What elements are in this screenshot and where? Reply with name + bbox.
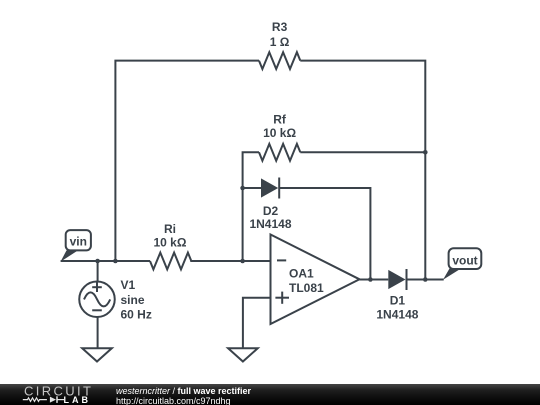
wire D2 anode xyxy=(243,187,261,189)
op-amp OA1 xyxy=(271,235,360,325)
flag vout xyxy=(443,248,481,280)
svg-text:Rf: Rf xyxy=(273,113,287,127)
label R3 value xyxy=(270,20,290,49)
diode D2 xyxy=(261,178,279,199)
node junction minus input xyxy=(240,259,245,264)
node junction V1 top xyxy=(95,259,100,264)
node junction D2 anode xyxy=(240,186,245,191)
wire D2 cathode to output xyxy=(279,188,370,280)
svg-text:vin: vin xyxy=(70,235,87,249)
CircuitLab logo xyxy=(0,384,96,405)
wire vin to Ri xyxy=(61,260,150,262)
svg-text:60 Hz: 60 Hz xyxy=(121,308,152,322)
label Rf value xyxy=(263,113,296,141)
wire Rf left vertical xyxy=(243,152,259,261)
label V1 value xyxy=(121,278,152,322)
voltage source V1 xyxy=(79,282,115,318)
flag vin xyxy=(61,230,91,262)
diode D1 xyxy=(388,269,406,290)
wire V1 bottom xyxy=(97,317,99,348)
svg-text:V1: V1 xyxy=(121,278,136,292)
svg-text:sine: sine xyxy=(121,293,145,307)
wire V1 top xyxy=(97,261,99,282)
wire R3 to right vertical xyxy=(300,61,425,280)
resistor Rf xyxy=(259,144,300,161)
resistor Ri xyxy=(150,253,191,270)
wire D1 cathode to vout xyxy=(407,279,444,281)
resistor R3 xyxy=(259,52,300,69)
svg-text:10 kΩ: 10 kΩ xyxy=(154,236,187,250)
wire Rf to right vertical xyxy=(300,151,425,153)
svg-text:LAB: LAB xyxy=(64,395,90,405)
wire node to R3 top left vertical xyxy=(115,61,259,261)
svg-text:D2: D2 xyxy=(263,204,279,218)
svg-text:R3: R3 xyxy=(272,20,288,34)
svg-text:TL081: TL081 xyxy=(289,281,324,295)
ground below op-amp plus input xyxy=(228,348,258,361)
node junction Rf right xyxy=(423,150,428,155)
svg-text:1N4148: 1N4148 xyxy=(249,217,291,231)
node junction D1 cathode xyxy=(423,277,428,282)
ground below V1 xyxy=(82,348,112,361)
wire op-amp output to D1 xyxy=(360,279,389,281)
svg-text:1 Ω: 1 Ω xyxy=(270,35,290,49)
node junction op-amp output xyxy=(368,277,373,282)
svg-text:1N4148: 1N4148 xyxy=(376,308,418,322)
svg-text:vout: vout xyxy=(452,253,477,267)
footer bar xyxy=(0,384,540,405)
label D1 value xyxy=(376,294,418,322)
wire op-amp plus input to ground xyxy=(243,298,271,349)
node junction to R3 branch xyxy=(113,259,118,264)
credit text xyxy=(115,383,117,385)
svg-text:10 kΩ: 10 kΩ xyxy=(263,126,296,140)
wire Ri to op-amp minus input xyxy=(190,260,270,262)
svg-text:Ri: Ri xyxy=(164,222,176,236)
label Ri value xyxy=(154,222,187,250)
svg-text:OA1: OA1 xyxy=(289,267,314,281)
label D2 value xyxy=(249,204,291,231)
svg-text:D1: D1 xyxy=(390,294,406,308)
